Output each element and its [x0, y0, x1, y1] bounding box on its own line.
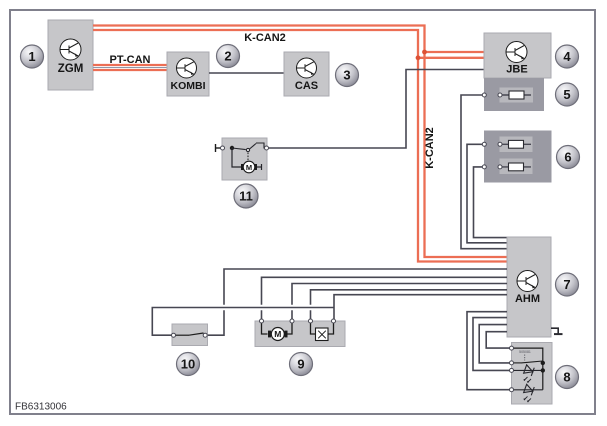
pin circle 9-2 [290, 319, 294, 323]
fuse F3 [482, 163, 531, 171]
pin circle 8-3 [510, 368, 514, 372]
terminal stub left of unit 11 [216, 144, 223, 152]
svg-text:8: 8 [563, 370, 570, 385]
mechanical link (dashed) socket 8 [524, 355, 526, 361]
motor M unit 9 [268, 328, 288, 341]
fuse holder F2 [500, 137, 533, 153]
wire K-CAN2 pair ZGM to JBE/AHM (lower orange line) [93, 30, 507, 262]
control unit CAS (box) [284, 52, 329, 96]
pin circle 8-1 [510, 346, 514, 350]
wire AHM to drive unit pin2 [292, 284, 507, 322]
wire AHM to socket 8 pin2 [479, 325, 511, 363]
callout ball 6 [557, 146, 580, 169]
wire AHM to drive unit pin1 [262, 277, 508, 321]
callout ball 7 [556, 273, 579, 296]
svg-text:ZGM: ZGM [58, 63, 84, 75]
fuse F1 [482, 91, 531, 99]
pin circle switch 10 right [203, 333, 207, 337]
svg-text:PT-CAN: PT-CAN [110, 54, 151, 66]
callout ball 3 [336, 64, 359, 87]
callout ball 1 [21, 45, 44, 68]
svg-text:K-CAN2: K-CAN2 [244, 32, 286, 44]
svg-text:505081: 505081 [519, 350, 531, 354]
transistor icon KOMBI [177, 58, 197, 78]
junction K-CAN2 lower branch [416, 55, 421, 60]
control unit KOMBI (box) [167, 52, 209, 96]
pin circle unit 11 left [221, 146, 225, 150]
sensor X unit 9 [316, 328, 329, 341]
fuse F2 [482, 140, 531, 148]
bus wire in socket 8 [512, 348, 543, 390]
callout ball 8 [556, 366, 579, 389]
control unit ZGM (box) [48, 20, 93, 90]
junction K-CAN2 upper branch [422, 50, 427, 55]
LED lower in socket 8 [512, 384, 543, 402]
pin circle 8-4 [510, 388, 514, 392]
svg-text:M: M [246, 163, 252, 172]
wire KOMBI to CAS [209, 72, 284, 74]
svg-text:4: 4 [563, 49, 571, 64]
pin circle 9-4 [332, 319, 336, 323]
wire AHM to socket 8 pin4 [467, 312, 512, 390]
wire AHM to socket 8 pin1 [486, 332, 511, 348]
motor unit 11 (box) [222, 138, 267, 180]
wire pin1 to motor 9 [262, 321, 268, 334]
pin circle switch 10 left [172, 333, 176, 337]
switch blade 10 [175, 333, 204, 335]
fuse holder F1 [500, 88, 534, 103]
wire AHM to drive unit pin3 [311, 290, 508, 321]
transistor icon ZGM [60, 39, 81, 60]
transistor icon CAS [297, 58, 317, 78]
callout ball 2 [217, 45, 240, 68]
svg-text:CAS: CAS [295, 80, 318, 92]
wire K-CAN2 branch to JBE (lower) [418, 57, 484, 59]
svg-text:5: 5 [563, 87, 570, 102]
svg-text:FB6313006: FB6313006 [15, 402, 67, 413]
callout ball 10 [177, 353, 200, 376]
fuse box 6 [484, 131, 552, 183]
drive unit 9 (box) [255, 321, 345, 347]
ground symbol at AHM [551, 328, 563, 334]
wire pin4 to sensor X [329, 321, 334, 334]
switch in unit 11 [232, 143, 267, 152]
wire fuse F2 to AHM [467, 144, 507, 243]
mechanical link (dashed) unit 11 [247, 153, 249, 161]
control unit JBE (box) [484, 33, 551, 78]
pin circle 9-3 [309, 319, 313, 323]
switch 10 (box) [172, 324, 208, 346]
wire PT-CAN pair ZGM to KOMBI (lower orange) [93, 69, 167, 71]
trailer socket 8 (box) [512, 343, 553, 405]
wire K-CAN2 pair ZGM to JBE/AHM (upper orange line) [93, 26, 507, 258]
svg-text:JBE: JBE [506, 64, 527, 76]
svg-text:3: 3 [343, 68, 350, 83]
transistor icon AHM [517, 271, 538, 292]
svg-text:KOMBI: KOMBI [171, 80, 206, 92]
wire AHM to socket 8 pin3 [473, 318, 512, 371]
fuse holder F3 [500, 159, 533, 175]
wire AHM to drive unit pin4 [334, 295, 507, 321]
motor M unit 11 [241, 161, 262, 173]
callout ball 4 [556, 45, 579, 68]
wire PT-CAN pair ZGM to KOMBI (upper orange) [93, 64, 167, 66]
svg-text:2: 2 [224, 49, 231, 64]
wire K-CAN2 branch to JBE (upper) [425, 51, 485, 53]
wire to motor unit 11 [232, 148, 243, 167]
junction dot socket 8 upper [541, 361, 545, 365]
transistor icon JBE [506, 42, 527, 63]
svg-text:7: 7 [563, 277, 570, 292]
callout ball 11 [234, 184, 258, 208]
svg-text:9: 9 [297, 357, 304, 372]
pin circle 9-1 [260, 319, 264, 323]
svg-text:6: 6 [564, 150, 571, 165]
fuse carrier section of JBE [484, 78, 544, 111]
wire pin3 to sensor X [311, 321, 316, 334]
wire fuse F1 to AHM [461, 95, 507, 249]
svg-text:M: M [274, 329, 281, 339]
svg-text:AHM: AHM [515, 293, 540, 305]
wire switch 10 left pin to pin4 node (with crossovers) [152, 308, 334, 336]
svg-text:11: 11 [239, 189, 253, 204]
svg-text:10: 10 [181, 357, 195, 372]
pin circle 8-2 [510, 361, 514, 365]
junction dot unit 11 [230, 146, 234, 150]
control unit AHM (box) [507, 237, 551, 337]
LED upper in socket 8 [512, 365, 543, 383]
wire pin2 to motor 9 [288, 321, 293, 334]
callout ball 9 [290, 353, 313, 376]
wire fuse F3 to AHM [474, 167, 508, 238]
wire AHM to switch 10 right pin [205, 269, 507, 335]
pin circle unit 11 right [265, 146, 269, 150]
wire JBE to motor unit 11 [267, 70, 484, 149]
svg-text:1: 1 [28, 49, 35, 64]
wire PT-CAN middle gray conductor [93, 67, 167, 69]
svg-text:K-CAN2: K-CAN2 [424, 127, 436, 169]
junction dot socket 8 lower [541, 368, 545, 372]
switch in socket 8 [512, 361, 543, 363]
callout ball 5 [556, 83, 579, 106]
